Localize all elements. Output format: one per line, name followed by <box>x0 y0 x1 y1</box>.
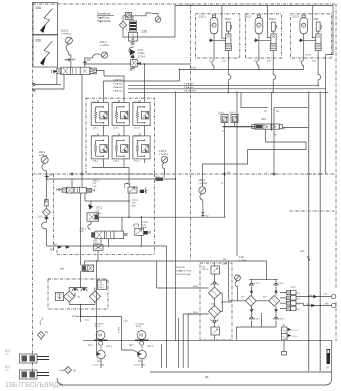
pump1 pressure line <box>96 261 98 353</box>
bypass indicator box <box>55 292 63 300</box>
valve 200,3 <box>299 17 321 86</box>
svg-text:240: 240 <box>300 250 305 253</box>
drop to bridge x237 <box>236 92 238 256</box>
svg-text:C#1: C#1 <box>93 182 98 185</box>
pressure line y179 <box>47 178 176 180</box>
filter diamond right <box>89 291 100 302</box>
svg-text:Ω=u3=ΩЇ µυβ: Ω=u3=ΩЇ µυβ <box>176 273 191 276</box>
feed drop station2 <box>267 6 271 38</box>
svg-text:C1B,3: C1B,3 <box>134 160 141 163</box>
bus line y81 <box>104 80 180 82</box>
gauge 110 <box>235 255 247 301</box>
svg-text:70: 70 <box>326 366 330 370</box>
svg-text:D≈ALT LHB: D≈ALT LHB <box>134 364 145 367</box>
bridge bottom wires <box>236 313 276 340</box>
svg-text:Md: Md <box>227 171 231 174</box>
svg-text:140,2: 140,2 <box>93 179 100 182</box>
bus labels mid <box>184 67 196 93</box>
cartridge valve 160,1g <box>91 134 108 163</box>
svg-text:1-160bar: 1-160bar <box>198 182 207 185</box>
filter 150 diamond <box>38 208 51 218</box>
feed drop station3 <box>312 6 316 38</box>
svg-text:C6,2 ▶ Md: C6,2 ▶ Md <box>184 90 196 93</box>
motor M1 <box>72 315 108 345</box>
branch col3 <box>143 64 145 98</box>
directional valve 140,1 <box>80 227 128 238</box>
svg-text:N₂: N₂ <box>258 24 261 27</box>
accumulator station 1 box <box>195 14 239 58</box>
svg-text:K: K <box>222 182 224 185</box>
svg-text:1-160bar: 1-160bar <box>159 153 169 156</box>
block stubs left <box>280 293 286 309</box>
svg-text:C1A,3: C1A,3 <box>134 126 141 129</box>
svg-text:M6: M6 <box>87 59 91 62</box>
wire filter to M1 <box>45 206 47 222</box>
directional valve 140,2 <box>57 179 100 193</box>
svg-text:1-400bar: 1-400bar <box>61 33 71 36</box>
svg-text:270,4: 270,4 <box>254 318 260 321</box>
bridge mid wire <box>229 300 246 302</box>
grey riser B <box>319 92 321 371</box>
svg-text:C#4: C#4 <box>142 224 147 227</box>
svg-text:C3J: C3J <box>312 60 316 63</box>
svg-text:M2: M2 <box>205 214 209 217</box>
svg-text:10,2: 10,2 <box>5 350 11 353</box>
grid column wires <box>103 98 105 167</box>
svg-text:140: 140 <box>60 268 65 271</box>
wire valve bottom P <box>81 75 83 188</box>
svg-text:M2: M2 <box>49 173 53 176</box>
tank level line <box>150 371 332 373</box>
svg-text:170,2: 170,2 <box>96 207 103 210</box>
valve 140,1 port wires <box>101 239 109 247</box>
svg-text:C1J: C1J <box>222 60 226 63</box>
bus line y76 <box>104 75 124 77</box>
wire tie lines left <box>33 75 64 92</box>
vertical drop to filter inlet <box>156 261 158 288</box>
svg-text:170,3: 170,3 <box>132 199 139 202</box>
risers through 310 <box>272 92 274 174</box>
wire filter-pilot <box>123 16 125 22</box>
wire valve left ports <box>56 74 58 79</box>
node dots <box>179 69 319 94</box>
svg-text:M≡4,0kW: M≡4,0kW <box>136 323 145 326</box>
Powado text <box>176 266 192 276</box>
svg-text:340: 340 <box>35 6 41 10</box>
svg-text:↑10,1: ↑10,1 <box>84 319 90 322</box>
relief valve 170,2 <box>87 205 103 230</box>
level switch 50 <box>282 324 299 355</box>
accumulator station 3 box <box>290 14 331 58</box>
directional valve 140,3 <box>52 67 97 74</box>
gauge 100,2 <box>61 29 76 68</box>
svg-text:1-400bar: 1-400bar <box>100 44 110 47</box>
filter unit 130 dashdot box <box>48 279 108 309</box>
gauge port circle 220 <box>155 17 161 23</box>
level bar 70 <box>326 349 331 370</box>
filter 220 diamond <box>119 21 126 28</box>
svg-text:50,1: 50,1 <box>88 344 93 347</box>
check valve 270,2 <box>249 279 260 296</box>
heater box 280 dashdot <box>200 263 232 340</box>
svg-text:310: 310 <box>261 117 266 121</box>
cartridge valve 170,5g <box>112 100 129 129</box>
svg-text:D≈ALT LHB: D≈ALT LHB <box>93 364 104 367</box>
svg-text:40: 40 <box>73 370 76 373</box>
svg-text:280: 280 <box>223 262 228 265</box>
svg-text:5bar: 5bar <box>132 204 136 207</box>
svg-text:▶ Md: ▶ Md <box>190 67 196 70</box>
grid bottom drop <box>128 167 130 183</box>
terminal block 10,2b <box>286 286 300 311</box>
svg-text:C5 Δ0: C5 Δ0 <box>305 54 312 57</box>
command box 340 <box>33 3 58 35</box>
svg-text:170,1: 170,1 <box>142 221 149 224</box>
svg-text:C#7: C#7 <box>96 209 101 212</box>
svg-text:N₂: N₂ <box>302 24 305 27</box>
svg-text:5µ: 5µ <box>78 296 81 299</box>
wire M1 bus y247 <box>55 245 167 247</box>
boundary tick riser <box>272 172 276 175</box>
frame right <box>335 4 337 288</box>
arrow marks <box>66 246 69 248</box>
check valve WO top <box>211 282 219 286</box>
svg-text:10,2: 10,2 <box>136 325 142 328</box>
suction filter 40b <box>59 367 76 374</box>
breather 150 column <box>44 178 48 206</box>
svg-text:C1B,2: C1B,2 <box>113 160 120 163</box>
svg-text:10,1: 10,1 <box>5 366 11 369</box>
svg-text:220,2: 220,2 <box>229 112 236 115</box>
svg-text:220: 220 <box>142 30 148 34</box>
svg-text:270,3: 270,3 <box>279 318 285 321</box>
svg-text:160: 160 <box>93 239 98 242</box>
svg-text:M: M <box>98 333 102 338</box>
svg-text:210,2: 210,2 <box>244 15 251 19</box>
filter diamond top 280 <box>209 287 221 299</box>
svg-text:34C: 34C <box>241 296 245 299</box>
pump suction wires <box>81 317 138 353</box>
valve 200,2 <box>254 17 276 93</box>
return line right side <box>290 6 333 175</box>
svg-text:200: 200 <box>314 17 319 21</box>
wire down from 220 <box>129 46 133 53</box>
svg-text:40: 40 <box>45 331 48 334</box>
shutoff 150b <box>45 217 49 220</box>
check valve right <box>81 288 87 291</box>
svg-text:60,2: 60,2 <box>138 360 143 363</box>
valve 140,2 ports <box>80 193 82 265</box>
svg-text:M≡4,0kW: M≡4,0kW <box>95 323 104 326</box>
wires into 280 <box>157 246 209 341</box>
dash-dot right mid boundary <box>290 210 335 212</box>
relief valve 220 <box>129 21 148 45</box>
bus line y92.3 <box>128 91 328 93</box>
svg-text:N₂: N₂ <box>213 24 216 27</box>
filter diamond left <box>64 291 75 302</box>
wire valve right port <box>96 71 104 77</box>
svg-text:VL: VL <box>283 127 287 130</box>
valve grid dash-dot box <box>86 98 154 174</box>
valve 140b <box>60 265 94 272</box>
check valve WO bottom <box>211 320 219 324</box>
trunk x175.3 <box>174 91 176 341</box>
svg-text:C#3: C#3 <box>132 202 137 205</box>
svg-text:M: M <box>275 134 277 137</box>
switch manifold <box>223 126 255 128</box>
accumulator 210,3 <box>292 15 308 70</box>
feed line top <box>175 6 333 38</box>
svg-text:CH▷: CH▷ <box>93 185 98 188</box>
command box 330 <box>33 35 58 67</box>
wire y217.2 <box>99 216 226 218</box>
svg-text:≥40mm: ≥40mm <box>291 329 298 332</box>
svg-text:270,2: 270,2 <box>254 282 260 285</box>
terminal box 10,1 <box>5 366 49 380</box>
svg-text:C2J: C2J <box>267 60 271 63</box>
heater bottom <box>211 327 220 335</box>
svg-text:170,4: 170,4 <box>138 55 146 59</box>
wire 220 main <box>123 29 175 37</box>
svg-text:60,1: 60,1 <box>97 360 102 363</box>
proportional valve 310 <box>252 117 283 129</box>
svg-text:6217S: 6217S <box>202 268 209 271</box>
check valve 270,4 <box>249 306 260 327</box>
dash-dot boundary x53.5 <box>53 174 55 250</box>
accumulator 210,2 <box>244 15 263 70</box>
svg-text:50: 50 <box>282 324 285 327</box>
cartridge valve 160,3g <box>133 134 150 163</box>
gauge 150,2 <box>155 149 169 181</box>
svg-text:100,2: 100,2 <box>147 345 154 348</box>
svg-text:10,1: 10,1 <box>95 325 101 328</box>
check valve 270,3 <box>274 306 285 327</box>
label block 130 <box>97 280 106 289</box>
svg-text:220,1: 220,1 <box>218 112 225 115</box>
wire lower bus y261 <box>85 261 267 265</box>
dash-dot boundary y173 <box>32 173 335 175</box>
valve 160 <box>93 239 103 261</box>
breather filter 40 <box>38 318 49 341</box>
wire T port 140,2 <box>71 179 73 187</box>
setting text block <box>97 13 114 24</box>
tick x82 y174 <box>80 172 84 175</box>
svg-text:M: M <box>139 333 143 338</box>
dash-dot vertical x190.6 <box>190 4 192 261</box>
svg-text:0,4: 0,4 <box>297 297 301 300</box>
svg-text:M6: M6 <box>72 59 76 62</box>
bus line y69.4 <box>179 68 303 70</box>
tank top line <box>83 339 332 341</box>
valve 220 pilot box <box>125 12 131 19</box>
bus line y88.8 <box>128 88 290 90</box>
svg-text:20: 20 <box>205 375 209 379</box>
bracket <box>296 303 303 305</box>
pump 60,1 <box>88 344 113 367</box>
bus line y64 <box>85 63 191 65</box>
grid bottom manifold <box>92 166 129 168</box>
dash-dot boundary y254.9 <box>57 253 154 255</box>
svg-text:0,6: 0,6 <box>297 308 301 311</box>
svg-text:110: 110 <box>239 255 244 259</box>
port RL <box>324 303 336 308</box>
pressure switch 220,1 <box>218 112 228 127</box>
wires to VL RL <box>296 296 331 298</box>
svg-text:C0: C0 <box>276 110 280 113</box>
svg-text:TuβΓ: TuβΓ <box>5 352 9 355</box>
svg-text:90/14: 90/14 <box>193 285 199 288</box>
dash-dot boundary x154.4 <box>153 174 155 254</box>
filter diamond bottom 280 <box>209 306 221 318</box>
svg-text:≤30mm: ≤30mm <box>291 335 298 338</box>
svg-text:50,2: 50,2 <box>129 344 134 347</box>
pilot valve 170,3 <box>125 183 148 218</box>
relief valve 170,1 <box>134 216 151 246</box>
wires in 280 <box>214 335 216 340</box>
accumulator 210,1 <box>199 15 218 70</box>
bus line y85.3 <box>128 84 318 86</box>
check valve left <box>72 288 78 291</box>
svg-text:C#5: C#5 <box>80 230 85 233</box>
terminal box 10,2 <box>5 350 49 364</box>
heater top <box>202 263 220 274</box>
cartridge valve 160,2g <box>112 134 129 163</box>
gauge 150,1 <box>38 150 48 179</box>
bridge filter right <box>263 296 280 312</box>
bridge filter left <box>241 296 256 312</box>
accumulator station 2 box <box>246 14 282 58</box>
svg-text:140,1: 140,1 <box>80 227 87 230</box>
valve 170,4 <box>130 49 145 71</box>
svg-text:200,2: 200,2 <box>269 17 276 21</box>
station port labels <box>209 60 316 63</box>
svg-text:○RL: ○RL <box>324 303 329 306</box>
svg-text:330: 330 <box>35 39 41 43</box>
svg-text:150,1: 150,1 <box>38 150 45 154</box>
svg-text:130: 130 <box>98 281 102 284</box>
check valve 270,1 <box>274 279 285 296</box>
svg-text:0,3: 0,3 <box>297 292 301 295</box>
svg-text:34C: 34C <box>263 296 267 299</box>
svg-text:19Б7ГБСЇЉЛЯДА: 19Б7ГБСЇЉЛЯДА <box>5 381 63 389</box>
svg-text:x: x <box>266 171 268 174</box>
svg-text:UTCR: UTCR <box>98 284 104 287</box>
svg-text:100,1: 100,1 <box>198 178 205 182</box>
svg-text:200,1: 200,1 <box>225 17 232 21</box>
svg-text:C6 ▶ M4: C6 ▶ M4 <box>113 90 123 93</box>
valve 200,1 <box>209 17 232 93</box>
boundary tick K <box>223 172 227 175</box>
bridge inner link <box>256 300 269 302</box>
svg-text:U40k: U40k <box>59 369 65 372</box>
feed drop station1 <box>222 6 227 39</box>
svg-text:0-10bar: 0-10bar <box>239 259 246 262</box>
svg-text:150: 150 <box>38 216 43 219</box>
svg-text:270,1: 270,1 <box>279 282 285 285</box>
gauge 100,1b <box>83 40 110 67</box>
filter unit wires <box>69 279 95 322</box>
cartridge valve 170,4g <box>91 100 108 129</box>
svg-text:CO#P: CO#P <box>98 286 104 289</box>
restrictor 240 <box>300 250 310 261</box>
svg-text:C1 ▶ M4: C1 ▶ M4 <box>113 79 123 82</box>
svg-text:C4: C4 <box>264 110 268 113</box>
svg-text:1-250bar: 1-250bar <box>38 154 47 157</box>
bridge top wires <box>266 261 268 280</box>
pressure switch 220,2 <box>229 112 238 127</box>
grey riser A <box>308 92 310 371</box>
svg-text:VL○: VL○ <box>324 293 329 296</box>
svg-text:P₂▶140 bar: P₂▶140 bar <box>97 20 111 23</box>
wire 220 top <box>132 13 151 16</box>
motor M2 <box>135 323 149 346</box>
frame left <box>32 3 34 379</box>
svg-text:C1A,2: C1A,2 <box>113 126 120 129</box>
frame top <box>33 3 336 5</box>
svg-text:10,2: 10,2 <box>291 286 296 289</box>
svg-text:C1A,1: C1A,1 <box>92 126 99 129</box>
svg-text:TuβΓ: TuβΓ <box>5 368 9 371</box>
port VL <box>324 293 336 299</box>
bus elbow <box>178 69 180 81</box>
tick x72 y174 <box>70 172 74 175</box>
frame right lower <box>335 302 337 341</box>
gauge 100,1 <box>198 178 207 217</box>
cartridge valve 170,6g <box>133 100 150 129</box>
suction pipes <box>162 314 201 368</box>
tank bottom <box>57 340 332 385</box>
svg-text:▷10k: ▷10k <box>123 320 128 323</box>
pump 60,2 <box>129 344 154 367</box>
svg-text:210,3: 210,3 <box>292 15 299 19</box>
svg-text:C1B,1: C1B,1 <box>92 160 99 163</box>
bus labels left <box>113 79 123 93</box>
svg-text:4 PSu: 4 PSu <box>118 326 121 333</box>
svg-text:100,1: 100,1 <box>106 345 113 348</box>
svg-text:210,1: 210,1 <box>199 15 206 19</box>
boundary tick grey <box>307 172 311 175</box>
